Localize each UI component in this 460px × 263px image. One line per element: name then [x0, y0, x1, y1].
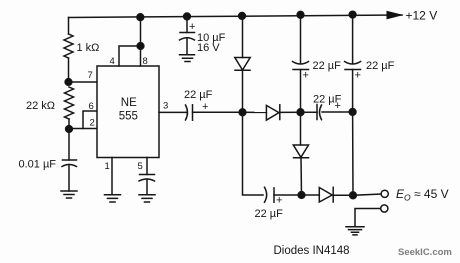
svg-text:SeekIC.com: SeekIC.com [398, 247, 452, 258]
svg-text:+: + [355, 70, 361, 82]
svg-text:0.01 µF: 0.01 µF [19, 159, 57, 171]
wire C5 to node D [274, 194, 302, 196]
wire C2 to ground [146, 179, 148, 195]
wire D3 to node D [300, 158, 303, 195]
return terminal circle [381, 205, 388, 212]
wire D4 to node E [333, 194, 353, 196]
wire rail to C3 [186, 16, 188, 32]
wire pin 1 to ground [111, 158, 113, 195]
svg-text:1: 1 [105, 161, 110, 172]
wire pin 6 [83, 111, 97, 129]
svg-text:2: 2 [90, 118, 95, 129]
svg-text:3: 3 [163, 101, 168, 112]
wire C6 to node B [300, 70, 302, 113]
wire pin 2 [69, 128, 97, 130]
wire pin 5 to C2 [146, 158, 148, 175]
svg-text:6: 6 [89, 101, 94, 112]
svg-text:NE: NE [121, 97, 137, 109]
svg-text:+: + [335, 100, 341, 112]
wire C8 to node C [352, 70, 354, 112]
svg-text:+: + [189, 21, 195, 33]
capacitor C2 on pin 5 [140, 174, 155, 176]
svg-text:22 µF: 22 µF [255, 208, 284, 220]
wire D1 to node A [242, 70, 244, 112]
wire C1 to ground [68, 165, 70, 192]
diode D4 right row3 [319, 188, 332, 203]
resistor R1 1 kOhm [64, 34, 73, 58]
wire node A to D2 [243, 111, 267, 113]
IC U1 NE555 body [97, 66, 159, 158]
capacitor C7 22 uF row2 [316, 105, 318, 120]
wire R2 to node2 [68, 119, 70, 129]
wire pin 3 to C4 [159, 111, 186, 113]
diode D3 down col2 [293, 145, 308, 157]
wire return terminal to ground [355, 209, 381, 227]
ground C3 [180, 55, 195, 62]
capacitor C6 22 uF col2 [293, 62, 309, 65]
svg-text:22 µF: 22 µF [313, 60, 342, 72]
svg-text:1 kΩ: 1 kΩ [77, 42, 100, 54]
svg-text:+12 V: +12 V [406, 9, 438, 23]
wire pin 4 [119, 46, 141, 66]
+12 V supply arrow [387, 11, 404, 20]
svg-text:5: 5 [138, 161, 143, 172]
wire R1 to node7 [68, 58, 70, 82]
svg-text:22 µF: 22 µF [184, 89, 213, 101]
capacitor C3 10 uF [180, 32, 195, 34]
svg-text:Diodes IN4148: Diodes IN4148 [274, 245, 350, 257]
capacitor C4 22 uF coupling [186, 105, 188, 120]
wire node to C1 [68, 129, 70, 160]
wire pin 7 [69, 81, 98, 83]
node rail at pin8 column [137, 14, 144, 21]
wire C7 to node C [322, 111, 353, 113]
output terminal circle Eo [381, 190, 388, 197]
svg-text:555: 555 [119, 111, 138, 123]
svg-text:8: 8 [143, 56, 148, 67]
node C [349, 109, 356, 116]
node junction R2-pin2-C1 [66, 126, 73, 133]
capacitor C1 0.01 uF [63, 159, 77, 161]
wire node C to node E [352, 112, 354, 195]
node A [239, 109, 246, 116]
wire C4 to node A [193, 111, 243, 113]
node rail 10uF [184, 13, 191, 20]
node B [297, 109, 304, 116]
svg-text:4: 4 [110, 56, 115, 67]
diode D2 right row2 [266, 105, 279, 120]
ground output [346, 227, 364, 235]
node rail col3 [349, 11, 356, 18]
ground C1 [61, 191, 77, 198]
svg-text:+: + [202, 101, 208, 113]
diode D1 down [235, 58, 250, 71]
IC U1 name NE 555 [119, 97, 138, 123]
svg-text:7: 7 [88, 70, 93, 81]
wire +12V top rail [69, 15, 403, 18]
svg-text:+: + [276, 195, 282, 207]
wire rail to C6 [300, 15, 302, 63]
wire left rail to R1 [68, 18, 70, 35]
ground pin1 [105, 195, 121, 202]
capacitor C8 22 uF col3 [345, 62, 361, 65]
node junction pin4-pin8 [137, 43, 144, 50]
wire node E to output terminal [353, 194, 381, 195]
wire rail to D1 [242, 16, 244, 58]
wire rail to C8 [352, 15, 354, 63]
svg-text:16 V: 16 V [197, 42, 220, 54]
node junction R1-R2-pin7 [65, 79, 72, 86]
svg-text:+: + [303, 70, 309, 82]
wire node D to D4 [302, 194, 320, 196]
wire node B to C7 [301, 111, 318, 113]
svg-text:22 kΩ: 22 kΩ [26, 100, 55, 112]
wire D2 to node B [280, 111, 301, 113]
node D [298, 192, 305, 199]
node E [350, 192, 357, 199]
wire node B to D3 [300, 112, 302, 145]
wire C3 to ground [186, 38, 188, 55]
ground pin5 [139, 195, 155, 202]
resistor R2 22 kOhm [65, 87, 74, 119]
node rail col2 [297, 11, 304, 18]
wire pin 8 to rail [140, 17, 142, 66]
capacitor C5 22 uF bottom [265, 187, 267, 202]
wire node A down to C5 [243, 112, 264, 195]
node rail col1 [239, 13, 246, 20]
svg-text:EO ≈ 45 V: EO ≈ 45 V [396, 187, 449, 203]
svg-text:22 µF: 22 µF [366, 60, 395, 72]
